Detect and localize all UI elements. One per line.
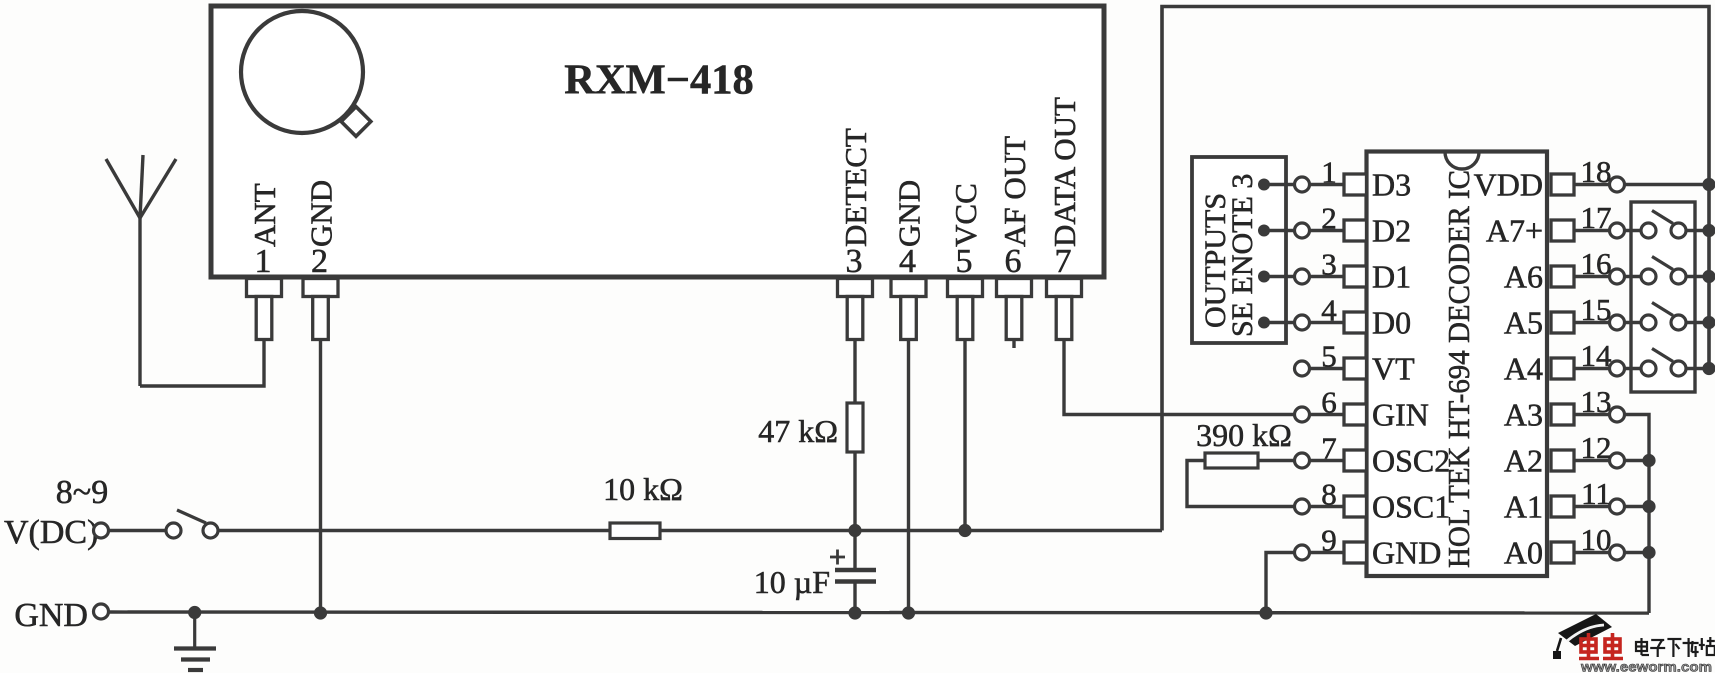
pin number 18 [1581, 154, 1612, 189]
terminal circle pin 17 [1610, 223, 1625, 238]
terminal circle pin 15 [1610, 315, 1625, 330]
wire RXM pin 6 AF OUT stub [1012, 338, 1015, 348]
terminal circle pin 5 [1295, 361, 1310, 376]
pin number 6 [1005, 243, 1022, 280]
svg-text:D0: D0 [1372, 305, 1411, 341]
decoder pin 3 lead [1310, 275, 1345, 278]
decoder pin 13 square pad [1551, 404, 1574, 425]
svg-text:14: 14 [1581, 338, 1613, 373]
RXM-418 internal SAW resonator circle [241, 11, 363, 133]
decoder pin 10 lead [1574, 551, 1610, 554]
pin number 1 [1321, 155, 1337, 190]
address switch SW1 [1641, 211, 1686, 239]
pin number 4 [1321, 293, 1337, 328]
watermark chongchong red characters [1579, 633, 1623, 659]
label A1 [1504, 489, 1543, 525]
pin number 9 [1321, 523, 1337, 558]
wire switch SW1 to supply frame [1686, 229, 1709, 232]
decoder pin 7 lead [1310, 459, 1345, 462]
decoder pin 15 square pad [1551, 312, 1574, 333]
label A3 [1504, 397, 1543, 433]
RXM-418 pin 1 (ANT) package pin [247, 279, 282, 340]
decoder pin 2 square pad [1344, 220, 1367, 241]
decoder pin 15 lead [1574, 321, 1610, 324]
junction gnd-symbol [188, 606, 201, 619]
wire pin 16 to switch [1625, 275, 1642, 278]
output dot D1 [1258, 317, 1270, 329]
svg-text:SE ENOTE 3: SE ENOTE 3 [1226, 174, 1259, 337]
power switch S1 [166, 510, 218, 538]
wire VDC node to capacitor [853, 531, 856, 569]
svg-text:AF OUT: AF OUT [997, 136, 1032, 247]
address switch SW2 [1641, 257, 1686, 285]
label 10 uF [754, 564, 830, 600]
label D1 [1372, 259, 1411, 295]
svg-text:GND: GND [304, 180, 339, 247]
pin number 6 [1321, 385, 1337, 420]
label D0 [1372, 305, 1411, 341]
svg-text:OSC2: OSC2 [1372, 443, 1450, 479]
ground symbol [174, 613, 216, 671]
pin label DETECT [838, 128, 873, 247]
decoder pin 14 square pad [1551, 358, 1574, 379]
svg-text:2: 2 [1321, 201, 1337, 236]
decoder pin 5 lead [1310, 367, 1345, 370]
junction pin9-gnd [1259, 606, 1272, 619]
junction addr-drop [1642, 454, 1655, 467]
pin number 5 [1321, 339, 1337, 374]
terminal circle pin 8 [1295, 499, 1310, 514]
decoder pin 3 square pad [1344, 266, 1367, 287]
svg-text:D1: D1 [1372, 259, 1411, 295]
decoder pin 1 square pad [1344, 174, 1367, 195]
label 47 kOhm [758, 413, 838, 449]
decoder pin 10 square pad [1551, 542, 1574, 563]
label HOLTEK HT-694 DECODER IC [1441, 170, 1476, 568]
wire pin 17 to switch [1625, 229, 1642, 232]
wire output D2 to note box [1264, 275, 1295, 278]
svg-text:OSC1: OSC1 [1372, 489, 1450, 525]
terminal circle pin 9 [1295, 545, 1310, 560]
decoder pin 6 lead [1310, 413, 1345, 416]
pin number 2 [1321, 201, 1337, 236]
pin number 12 [1581, 430, 1612, 465]
wire pin 14 to switch [1625, 367, 1642, 370]
decoder pin 6 square pad [1344, 404, 1367, 425]
label 8~9 [56, 474, 108, 511]
svg-text:3: 3 [1321, 247, 1337, 282]
decoder pin 2 lead [1310, 229, 1345, 232]
address switch SW3 [1641, 303, 1686, 331]
decoder pin 5 square pad [1344, 358, 1367, 379]
OUTPUTS note box [1192, 157, 1286, 343]
svg-text:RXM−418: RXM−418 [564, 57, 753, 104]
wire 47k to VDC node [853, 452, 856, 531]
svg-text:16: 16 [1581, 246, 1612, 281]
svg-text:13: 13 [1581, 384, 1612, 419]
svg-text:V(DC): V(DC) [4, 514, 98, 551]
svg-text:390 kΩ: 390 kΩ [1196, 417, 1292, 453]
terminal GND [94, 604, 109, 619]
decoder pin 8 square pad [1344, 496, 1367, 517]
terminal circle pin 10 [1610, 545, 1625, 560]
svg-text:4: 4 [1321, 293, 1337, 328]
svg-text:10 kΩ: 10 kΩ [603, 471, 683, 507]
terminal circle pin 18 [1610, 177, 1625, 192]
wire RXM pin 7 DATA OUT to decoder GIN [1064, 338, 1295, 415]
decoder pin 13 lead [1574, 413, 1610, 416]
svg-text:A3: A3 [1504, 397, 1543, 433]
svg-text:A1: A1 [1504, 489, 1543, 525]
label A7+ [1486, 213, 1543, 249]
wire switch SW3 to supply frame [1686, 321, 1709, 324]
svg-text:2: 2 [311, 243, 328, 280]
terminal circle pin 13 [1610, 407, 1625, 422]
watermark site name characters [1636, 637, 1715, 657]
wire pin 15 to switch [1625, 321, 1642, 324]
svg-text:DETECT: DETECT [838, 128, 873, 247]
wire A3-A0 ground drop [1625, 415, 1650, 614]
svg-text:47 kΩ: 47 kΩ [758, 413, 838, 449]
wire RXM pin 4 GND to ground bus [907, 338, 910, 613]
terminal V(DC) [94, 523, 109, 538]
wire VDD pin18 to supply frame [1625, 183, 1710, 186]
decoder pin 18 lead [1574, 183, 1610, 186]
svg-text:GND: GND [14, 597, 88, 634]
pin label ANT [247, 183, 282, 247]
svg-text:12: 12 [1581, 430, 1612, 465]
RXM-418 pin 3 (DETECT) package pin [838, 279, 873, 340]
wire output D3 to note box [1264, 229, 1295, 232]
junction sw2-frame [1702, 270, 1715, 283]
decoder pin 18 square pad [1551, 174, 1574, 195]
label GIN [1372, 397, 1429, 433]
RXM-418 pin 7 (DATA OUT) package pin [1047, 279, 1082, 340]
output dot D3 [1258, 225, 1270, 237]
label OUTPUTS [1199, 193, 1232, 328]
wire address pin to drop [1625, 459, 1650, 462]
output dot D2 [1258, 271, 1270, 283]
svg-text:1: 1 [255, 243, 272, 280]
pin number 10 [1581, 522, 1612, 557]
svg-text:A0: A0 [1504, 535, 1543, 571]
terminal circle pin 1 [1295, 177, 1310, 192]
pin number 15 [1581, 292, 1612, 327]
pin number 5 [956, 243, 973, 280]
decoder pin 12 square pad [1551, 450, 1574, 471]
wire 390k loop to OSC1 [1187, 461, 1295, 507]
svg-text:9: 9 [1321, 523, 1337, 558]
decoder pin 14 lead [1574, 367, 1610, 370]
terminal circle pin 14 [1610, 361, 1625, 376]
wire address pin to drop [1625, 505, 1650, 508]
capacitor plus sign [830, 550, 845, 565]
pin number 16 [1581, 246, 1612, 281]
svg-text:A7+: A7+ [1486, 213, 1543, 249]
RXM-418 resonator tab diamond [341, 107, 371, 137]
label A5 [1504, 305, 1543, 341]
svg-text:17: 17 [1581, 200, 1612, 235]
svg-text:15: 15 [1581, 292, 1612, 327]
svg-text:D2: D2 [1372, 213, 1411, 249]
terminal circle pin 6 [1295, 407, 1310, 422]
decoder pin 7 square pad [1344, 450, 1367, 471]
address switch bank box [1631, 202, 1695, 392]
decoder notch [1445, 152, 1479, 169]
label D3 [1372, 167, 1411, 203]
svg-text:10: 10 [1581, 522, 1612, 557]
RXM-418 pin 5 (VCC) package pin [948, 279, 983, 340]
svg-text:6: 6 [1321, 385, 1337, 420]
svg-text:VDD: VDD [1474, 167, 1543, 203]
terminal circle pin 7 [1295, 453, 1310, 468]
wire RXM pin 5 VCC to VDC line [963, 338, 966, 531]
pin number 1 [255, 243, 272, 280]
label GND [1372, 535, 1441, 571]
svg-text:7: 7 [1055, 243, 1072, 280]
label A4 [1504, 351, 1543, 387]
decoder pin 16 square pad [1551, 266, 1574, 287]
label A6 [1504, 259, 1543, 295]
junction addr-drop [1642, 546, 1655, 559]
pin number 7 [1321, 431, 1337, 466]
wire switch SW4 to supply frame [1686, 367, 1709, 370]
wire decoder GND pin9 to ground bus [1266, 553, 1295, 614]
RXM-418 pin 2 (GND) package pin [303, 279, 338, 340]
pin number 3 [1321, 247, 1337, 282]
svg-text:3: 3 [846, 243, 863, 280]
decoder pin 9 square pad [1344, 542, 1367, 563]
wire OSC2 to 390k [1258, 459, 1295, 462]
label OSC1 [1372, 489, 1450, 525]
label RXM-418 title [564, 57, 753, 104]
decoder pin 11 lead [1574, 505, 1610, 508]
wire RXM pin 2 GND to ground bus [319, 338, 322, 613]
wire switch to 10k resistor [218, 529, 610, 532]
svg-text:GIN: GIN [1372, 397, 1429, 433]
decoder pin 16 lead [1574, 275, 1610, 278]
svg-text:GND: GND [1372, 535, 1441, 571]
svg-text:www.eeworm.com: www.eeworm.com [1580, 659, 1712, 673]
decoder pin 17 square pad [1551, 220, 1574, 241]
svg-text:A6: A6 [1504, 259, 1543, 295]
label VT [1372, 351, 1415, 387]
junction sw1-frame [1702, 224, 1715, 237]
wire RXM pin 3 DETECT down [853, 338, 856, 403]
wire address pin to drop [1625, 551, 1650, 554]
RXM-418 pin 4 (GND) package pin [891, 279, 926, 340]
wire capacitor to ground bus [853, 583, 856, 613]
svg-text:DATA OUT: DATA OUT [1047, 97, 1082, 247]
decoder pin 17 lead [1574, 229, 1610, 232]
label VDD [1474, 167, 1543, 203]
pin number 4 [899, 243, 916, 280]
junction pin2-gnd [314, 606, 327, 619]
junction pin4-gnd [902, 606, 915, 619]
junction detect-vdc [848, 524, 861, 537]
decoder IC U1 HT-694 body [1367, 152, 1548, 577]
watermark url www.eeworm.com [1580, 659, 1712, 673]
pin label VCC [948, 183, 983, 247]
svg-text:5: 5 [956, 243, 973, 280]
output dot D4 [1258, 179, 1270, 191]
wire output D1 to note box [1264, 321, 1295, 324]
svg-text:8: 8 [1321, 477, 1337, 512]
terminal circle pin 11 [1610, 499, 1625, 514]
pin number 7 [1055, 243, 1072, 280]
junction vdd-frame [1702, 178, 1715, 191]
svg-text:VT: VT [1372, 351, 1415, 387]
terminal circle pin 12 [1610, 453, 1625, 468]
antenna ANT1 [106, 155, 176, 386]
svg-text:11: 11 [1581, 476, 1611, 511]
svg-text:A2: A2 [1504, 443, 1543, 479]
label V(DC) [4, 514, 98, 551]
pin number 13 [1581, 384, 1612, 419]
wire ground bus [109, 612, 1650, 613]
label OSC2 [1372, 443, 1450, 479]
pin number 14 [1581, 338, 1613, 373]
svg-text:6: 6 [1005, 243, 1022, 280]
capacitor C 10uF plates [835, 570, 876, 582]
wire output D4 to note box [1264, 183, 1295, 186]
junction vcc-vdc [958, 524, 971, 537]
decoder pin 1 lead [1310, 183, 1345, 186]
RXM-418 pin 6 (AF OUT) package pin [997, 279, 1032, 340]
decoder pin 11 square pad [1551, 496, 1574, 517]
svg-text:A5: A5 [1504, 305, 1543, 341]
pin label AF OUT [997, 136, 1032, 247]
terminal circle pin 4 [1295, 315, 1310, 330]
watermark graduation cap [1553, 614, 1612, 659]
pin label GND [304, 180, 339, 247]
RXM-418 receiver module body [211, 6, 1104, 277]
wire 10k to frame riser [660, 529, 1162, 532]
pin number 3 [846, 243, 863, 280]
label 390 kOhm [1196, 417, 1292, 453]
svg-text:VCC: VCC [948, 183, 983, 247]
pin number 8 [1321, 477, 1337, 512]
resistor R 47k body [847, 403, 863, 452]
svg-text:18: 18 [1581, 154, 1612, 189]
svg-text:GND: GND [892, 180, 927, 247]
pin number 11 [1581, 476, 1611, 511]
wire switch SW2 to supply frame [1686, 275, 1709, 278]
junction cap-gnd [848, 606, 861, 619]
label 10 kOhm [603, 471, 683, 507]
pin label GND [892, 180, 927, 247]
svg-text:5: 5 [1321, 339, 1337, 374]
junction sw3-frame [1702, 316, 1715, 329]
pin number 2 [311, 243, 328, 280]
terminal circle pin 3 [1295, 269, 1310, 284]
wire vdc terminal to switch [109, 529, 167, 532]
svg-text:A4: A4 [1504, 351, 1543, 387]
terminal circle pin 16 [1610, 269, 1625, 284]
wire antenna to RXM pin 1 [140, 338, 264, 386]
junction addr-drop [1642, 500, 1655, 513]
resistor R 10k body [610, 523, 660, 539]
label GND [14, 597, 88, 634]
label A2 [1504, 443, 1543, 479]
junction sw4-frame [1702, 362, 1715, 375]
address switch SW4 [1641, 349, 1686, 377]
label SE ENOTE 3 [1226, 174, 1259, 337]
svg-text:1: 1 [1321, 155, 1337, 190]
svg-text:D3: D3 [1372, 167, 1411, 203]
pin label DATA OUT [1047, 97, 1082, 247]
decoder pin 4 lead [1310, 321, 1345, 324]
svg-text:ANT: ANT [247, 183, 282, 247]
svg-text:4: 4 [899, 243, 916, 280]
decoder pin 9 lead [1310, 551, 1345, 554]
decoder pin 4 square pad [1344, 312, 1367, 333]
resistor R 390k body [1205, 453, 1258, 468]
wire supply frame (left riser, top, right drop) [1162, 7, 1709, 531]
svg-text:7: 7 [1321, 431, 1337, 466]
pin number 17 [1581, 200, 1612, 235]
decoder pin 8 lead [1310, 505, 1345, 508]
label A0 [1504, 535, 1543, 571]
label D2 [1372, 213, 1411, 249]
decoder pin 12 lead [1574, 459, 1610, 462]
svg-text:8~9: 8~9 [56, 474, 108, 511]
svg-text:10 µF: 10 µF [754, 564, 830, 600]
terminal circle pin 2 [1295, 223, 1310, 238]
